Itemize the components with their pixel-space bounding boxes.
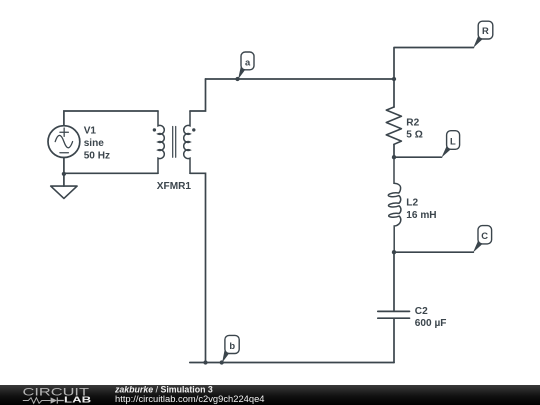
footer bar [0,385,540,405]
node V1- junction dot [62,172,66,176]
junction dot flag a [235,77,239,81]
wire to C flag [394,251,473,253]
svg-text:LAB: LAB [64,395,91,405]
junction dot flag b [220,360,224,364]
svg-text:5 Ω: 5 Ω [406,130,423,141]
label R2 value [406,118,423,141]
flag a [238,52,254,79]
wire node a horizontal [206,78,395,80]
wire V1 bottom to XFMR1 primary bottom [64,158,158,187]
flag R [473,21,493,48]
label C2 value [415,306,447,329]
capacitor C2 [378,252,410,362]
svg-text:http://circuitlab.com/c2vg9ch2: http://circuitlab.com/c2vg9ch224qe4 [115,394,265,404]
svg-text:XFMR1: XFMR1 [157,181,192,192]
label V1 value [84,125,110,161]
junction R2/L2 node L [392,155,396,159]
svg-text:50 Hz: 50 Hz [84,150,110,161]
secondary phase dot [192,128,195,131]
wire up to R flag [394,48,474,80]
svg-text:V1: V1 [84,125,97,136]
svg-text:b: b [229,340,235,351]
primary phase dot [153,128,156,131]
svg-text:R2: R2 [406,118,419,129]
svg-text:C2: C2 [415,306,428,317]
core [173,127,176,158]
wire XFMR1 secondary top to node a [190,79,206,111]
svg-text:L: L [450,135,456,146]
junction L2/C2 node C [392,250,396,254]
flag L [441,131,459,158]
primary winding [158,111,164,173]
junction bottom/XFMR1 [203,360,207,364]
resistor R2 [386,79,401,157]
ground [51,186,77,198]
svg-text:sine: sine [84,138,105,149]
inductor L2 [388,157,401,252]
wire to L flag [394,156,442,158]
wire V1 top to XFMR1 primary top [64,111,158,126]
flag C [473,226,492,253]
transformer XFMR1 [153,111,196,173]
voltage source V1 [48,126,80,158]
svg-text:L2: L2 [406,198,418,209]
CircuitLab logo [23,387,92,405]
label L2 value [406,198,436,221]
svg-text:600 µF: 600 µF [415,318,447,329]
svg-text:16 mH: 16 mH [406,210,436,221]
svg-text:R: R [482,25,489,36]
junction node a / R2 [392,77,396,81]
svg-text:C: C [481,230,488,241]
flag b [222,335,239,362]
secondary winding [184,111,190,173]
bottom wire node b [190,362,394,364]
svg-text:a: a [245,56,251,67]
wire XFMR1 secondary bottom down [190,173,206,362]
